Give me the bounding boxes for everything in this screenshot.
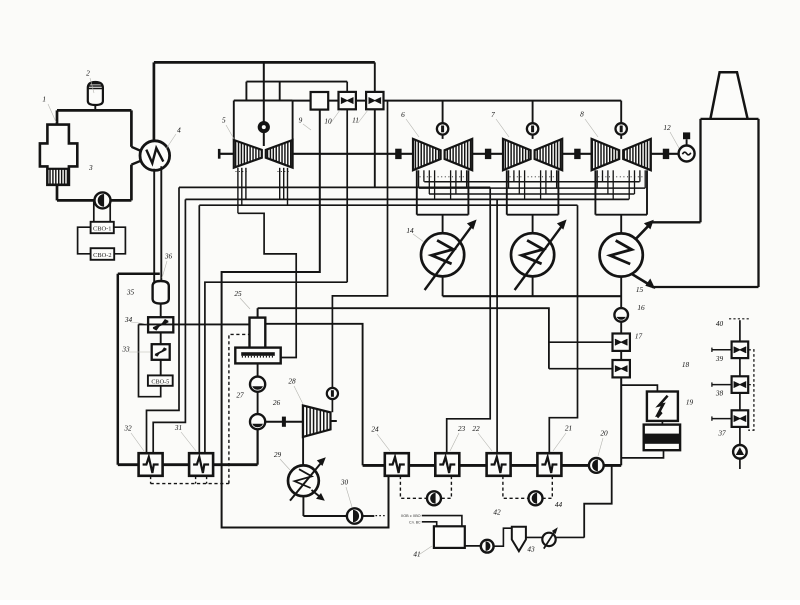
wire condensate to riser [604,464,622,467]
valve box 33 [152,344,170,360]
wire SG downcomer b [160,166,162,282]
wire riser 17b-pump20 [620,378,622,466]
wire crossunder A [424,181,639,183]
wire condensate line left [118,463,258,466]
wire LP bleed pipe [423,170,425,181]
tick column inlet [711,348,713,352]
valve of LP turbine 7 [527,123,538,134]
wire HP bleed b [241,168,243,205]
svg-text:28: 28 [288,377,296,386]
wire below column pump [739,459,741,469]
wire header2 drop to heater 22 [496,199,498,453]
wire primary loop top [57,109,131,112]
svg-text:44: 44 [555,500,563,509]
deaerator column 25 [250,318,266,349]
tick column inlet [711,416,713,420]
svg-text:15: 15 [636,285,644,294]
wire box34 to box33 [160,332,162,344]
svg-text:17: 17 [635,332,643,341]
wire condenser2 drain [532,276,534,296]
svg-text:4: 4 [177,126,181,135]
wire to pump 30 [303,515,347,517]
condensate pump 16 [614,308,628,322]
wire tank35 to box34 [160,304,162,318]
wire LP bleed pipe [466,170,468,188]
wire column inlet stub [712,349,732,351]
svg-text:20: 20 [600,429,608,438]
wire cooling diagonal condenser 29 [290,462,322,501]
wire makeup inlet 2 [422,522,437,527]
dashed drain heater32 [150,476,152,484]
dots pump30 discharge [376,515,387,517]
svg-text:СВО-2: СВО-2 [93,252,111,259]
wire to CBO-1 right [109,200,111,222]
wire warm circ water horizontal [652,221,701,223]
arrowhead condenser29 bottom [316,493,325,501]
dashed bypass mid tap [748,384,754,386]
wire HP inlet pipe right [279,82,281,101]
wire cold circ water [630,273,653,287]
wire HP casing top [234,100,293,102]
wire shaft stub left of HP turbine [219,153,234,155]
svg-text:42: 42 [493,508,501,517]
wire cooling diagonal condenser 2 [515,224,563,290]
svg-text:41: 41 [413,550,420,559]
wire primary loop left lower [56,184,59,200]
wire deaerator outlet right [265,324,362,466]
tick column inlet [711,382,713,386]
svg-text:40: 40 [716,319,724,328]
wire HP extraction staircase to deaerator [238,213,296,357]
shaft end cap [218,149,221,159]
ion filter 39 [732,342,749,359]
wire HP bleed f [287,168,289,205]
shaft coupling [485,149,491,159]
heater 21 [537,453,561,476]
dashed drain 24 [400,476,426,498]
svg-text:6: 6 [401,110,405,119]
wire tank to pump [465,545,481,547]
wire LP bleed pipe [612,170,614,199]
svg-text:34: 34 [124,315,133,324]
svg-text:22: 22 [472,424,480,433]
wire filter to valve 44 [526,536,542,538]
wire condenser neck [442,215,444,234]
feed pump 26 [250,414,265,429]
svg-text:2: 2 [86,69,90,78]
svg-text:24: 24 [371,425,379,434]
wire deaerator to pump 27 [257,363,259,377]
svg-text:18: 18 [682,360,690,369]
svg-text:31: 31 [174,423,182,432]
svg-text:СВО-1: СВО-1 [93,225,111,232]
deaerator column 25 stem [257,308,259,317]
wire HP bleed c [245,168,247,200]
wire generator lead [686,139,688,145]
dots drain row [598,176,644,178]
wire pump30 discharge [362,515,374,517]
svg-text:14: 14 [406,226,414,235]
condenser of turbine 7 [511,233,554,276]
svg-text:Сл. ВС: Сл. ВС [409,520,421,524]
wire primary loop right upper [130,110,133,146]
wire branch to electro boiler 19 [621,385,657,392]
pressurizer 2 [88,82,103,105]
wire LP bleed pipe [450,170,452,199]
wire valve to turbine [532,135,534,139]
wire pump26 shaft [265,421,303,423]
wire cold circ water horizontal [652,286,759,288]
arrowhead warm water [644,220,654,230]
svg-text:23: 23 [458,424,466,433]
wire LP bleed pipe [508,170,510,188]
wire LP bleed pipe [428,170,430,194]
wire HP bleed e [283,168,285,200]
wire pump20 recirculation [584,465,612,537]
heater 23 [435,453,459,476]
wire HP exhaust header [246,81,347,83]
wire LP bleed pipe [540,170,542,199]
ion filter 38 [732,376,749,393]
wire condensate collector [443,295,622,297]
wire riser 16-17a [620,322,622,334]
LP heater 17a [613,334,630,351]
wire box10 vertical (HP exhaust drop) [346,82,348,283]
HP turbine 5 [234,140,293,168]
wire circ water duct right [757,119,759,287]
deaerator spray header [241,352,275,356]
wire HP exhaust downleg to heater 31 [205,282,347,453]
wire separator 9 drain loop [222,110,389,528]
wire CBO bypass left [78,227,91,254]
wire LP bleed pipe [607,170,609,194]
steam generator 4 [140,141,170,171]
valve of LP turbine 6 [437,123,448,134]
dots drain row [510,176,556,178]
svg-text:СВО-5: СВО-5 [151,378,169,385]
wire turbine28 right stub [331,420,337,422]
dashed drain 21 [543,476,553,498]
dashed drain 23 [441,476,451,498]
wire SG downcomer a [153,169,155,282]
wire primary loop bottom [57,199,131,202]
wire header1 left drop [147,187,180,453]
wire tower base [701,118,759,120]
wire LP bleed pipe [602,170,604,181]
wire makeup to condensate line [556,536,585,538]
wire header1 right drop to heater 23 [447,187,491,453]
svg-text:32: 32 [123,424,132,433]
svg-text:27: 27 [236,391,244,400]
svg-text:26: 26 [273,398,281,407]
wire valve to turbine [442,135,444,139]
svg-text:29: 29 [274,450,282,459]
wire SG cold leg stub [131,160,142,164]
wire LP bleed pipe [556,170,558,188]
wire exhaust box bottom [417,214,469,216]
wire condenser neck [532,215,534,234]
heater 22 [487,453,511,476]
separator 9 [311,92,329,110]
wire LP bleed pipe [596,170,598,188]
filter 43 [512,527,526,551]
wire exhaust box bottom [507,214,559,216]
wire exhaust box left [506,170,508,214]
wire condensate line right [363,464,589,467]
wire primary loop left upper [56,110,59,125]
wire header3 left drop to heater 31 [198,205,200,453]
wire column inlet stub [712,384,732,386]
wire shaft T7-T8 [562,153,591,155]
wire LP bleed pipe [639,170,641,181]
svg-text:36: 36 [164,252,173,261]
condenser 29 [288,465,319,496]
wire extraction header 2 (to heaters 32b,22) [185,198,629,200]
LP turbine 7 [503,139,562,170]
shaft coupling [395,149,401,159]
wire HP inlet pipe left [245,82,247,101]
svg-text:1: 1 [42,95,46,104]
dots HP bleed right [278,171,291,173]
reactor core (hatched) [47,169,69,185]
wire pump26 to condensate line [257,429,259,464]
reheater valve 10 [339,92,356,109]
svg-text:35: 35 [126,288,135,297]
makeup tank 41 [434,526,465,548]
svg-text:10: 10 [324,117,332,126]
svg-text:16: 16 [637,303,645,312]
wire condenser1 drain [442,276,444,296]
reactor vessel 1 [40,125,77,185]
LP turbine 6 [413,139,472,170]
svg-text:38: 38 [715,389,724,398]
dashed drain riser to deaerator [229,334,250,483]
wire column 40-39 [739,320,741,342]
shaft coupling 26-28 [282,417,286,427]
wire riser 17a-17b [620,351,622,360]
wire tap to 17a [549,341,613,343]
wire condensate to deaerator [139,323,250,325]
condenser29 outlet diagonal stub [312,490,321,497]
electro boiler 19 (lightning box) [647,392,678,421]
box CBO-1 [91,222,114,233]
wire LP bleed pipe [434,170,436,199]
wire CBO bypass right [114,227,126,254]
wire condenser neck [620,215,622,234]
wire accumulator return [621,450,663,458]
wire pump27 to pump26 [257,392,259,415]
makeup pump [481,540,494,553]
svg-text:3: 3 [88,163,93,172]
wire T6 valve riser [442,101,444,124]
wire LP bleed pipe [628,170,630,199]
dashes top of column [729,318,749,320]
wire column inlet stub [712,418,732,420]
wire LP bleed pipe [524,170,526,199]
wire valve to turbine [620,135,622,139]
wire T8 valve riser [620,101,622,124]
dashed drain header left [151,483,229,485]
svg-text:43: 43 [527,545,535,554]
dots HP bleed left [236,171,250,173]
wire LP bleed pipe [634,170,636,194]
wire LP bleed pipe [513,170,515,181]
wire LP bleed pipe [545,170,547,194]
wire exhaust box left [594,170,596,214]
wire LP bleed pipe [455,170,457,194]
wire header3 right drop to heater 21 [549,205,577,453]
dashed column bypass [748,350,754,430]
tank 35 [153,281,169,304]
wire extraction header 1 (to heaters 32a,23) [179,186,490,188]
svg-text:9: 9 [299,116,303,125]
wire exhaust box right [467,170,469,214]
wire HP bleed d [279,168,281,200]
wire makeup inlet 1 [422,516,462,527]
wire LP bleed pipe [418,170,420,188]
drain pump 44b [529,491,543,505]
svg-text:37: 37 [717,429,726,438]
wire HP bleed a [237,168,239,214]
wire warm circ water [628,224,651,247]
condensate pump 20 [589,458,604,473]
wire HP stop valve riser [263,62,265,146]
wire crossover header (through 9,10,11) [293,100,622,102]
wire column 37-pump [739,427,741,445]
wire exhaust box right [646,170,648,214]
svg-text:33: 33 [121,345,130,354]
wire tap to 17b [549,368,613,370]
condenser 15 of turbine 8 [600,233,643,276]
wire exhaust box right [557,170,559,214]
wire exhaust box left [416,170,418,214]
wire to CBO-1 left [93,200,95,222]
box CBO-2 [91,248,115,260]
svg-text:30: 30 [340,478,349,487]
dots drain row [420,176,466,178]
wire exhaust box bottom [595,214,647,216]
wire feedwater top return [118,273,160,276]
LP heater 17b [613,360,630,377]
aux turbine 28 [303,405,331,437]
wire CBO-5 return [139,324,161,396]
cooling tower [710,72,747,119]
arrowhead condenser 2 [557,220,567,230]
accumulator 18 (striped box) [644,425,680,451]
drain pump 44a [427,491,441,505]
deaerator tank [235,348,280,364]
pump 3 (main circulation pump) [95,192,111,208]
valve of LP turbine 8 [616,123,627,134]
svg-text:ХОВ с ХВО: ХОВ с ХВО [401,514,421,518]
pump 30 [347,508,362,523]
wire LP bleed pipe [644,170,646,188]
shaft coupling [663,149,669,159]
wire column 39-38 [739,358,741,376]
shaft coupling [574,149,580,159]
wire valve28 to turbine28 [331,399,333,412]
svg-text:8: 8 [580,110,584,119]
heater 32 [139,453,163,476]
arrowhead condenser29 top [317,457,326,466]
wire boiler to accumulator [661,421,663,425]
dashed drain heater31 b [206,476,208,484]
wire pump to filter [494,528,512,546]
wire main steam line [154,61,375,64]
booster pump 27 [250,377,265,392]
wire primary loop right lower [130,165,133,201]
valve of aux turbine 28 [327,388,338,399]
wire HP casing left [233,101,235,141]
wire condenser29 drain [302,496,304,516]
wire pressurizer stem [94,105,96,110]
wire turbine28 exhaust [302,437,304,466]
wire extraction header 3 (to heaters 31a,21) [199,204,577,206]
arrowhead cold water [645,279,655,290]
wire shaft HP-T6 [293,153,413,155]
wire shaft T8-generator [651,153,679,155]
svg-text:21: 21 [565,424,572,433]
svg-text:11: 11 [352,116,359,125]
wire box11 vertical (steam bypass) [374,62,376,187]
valve box 34 [148,317,173,332]
dashed drain heater31 a [195,476,197,484]
wire header2 left drop [153,199,185,453]
wire SG hot leg stub [131,147,142,152]
wire crossunder B [419,187,645,189]
wire crossunder C [429,193,634,195]
wire LP bleed pipe [550,170,552,181]
wire big left feed line [117,274,120,465]
box CBO-5 [148,375,173,385]
wire HP casing right [292,101,294,141]
svg-text:19: 19 [686,398,694,407]
reheater valve 11 [366,92,383,109]
column pump [733,445,747,459]
LP turbine 8 [592,139,651,170]
wire deaerator feed header [258,308,549,369]
control valve 44 [542,527,558,548]
svg-text:7: 7 [491,110,495,119]
wire circ water duct left [699,119,701,222]
dashed drain 22 [503,476,528,498]
condenser 14 of turbine 6 [421,233,464,276]
wire LP bleed pipe [460,170,462,181]
wire condenser3 drain [620,277,622,309]
arrowhead condenser 1 [467,220,477,230]
wire LP bleed pipe [518,170,520,194]
generator 12 [679,146,695,162]
heater 31 [189,453,213,476]
ion filter 37 [732,410,749,427]
svg-text:39: 39 [715,354,724,363]
wire cooling diagonal condenser 1 [425,224,473,290]
wire column 38-37 [739,393,741,411]
svg-text:25: 25 [234,289,242,298]
svg-text:5: 5 [222,116,226,125]
wire aux turbine 28 steam supply [332,101,387,389]
heater 24 [385,453,409,476]
wire T7 valve riser [532,101,534,124]
wire box33 to CBO-5 [160,360,162,376]
wire shaft T6-T7 [472,153,503,155]
HP stop valve [258,121,270,133]
wire SG steam riser [153,62,156,141]
svg-text:12: 12 [663,123,671,132]
